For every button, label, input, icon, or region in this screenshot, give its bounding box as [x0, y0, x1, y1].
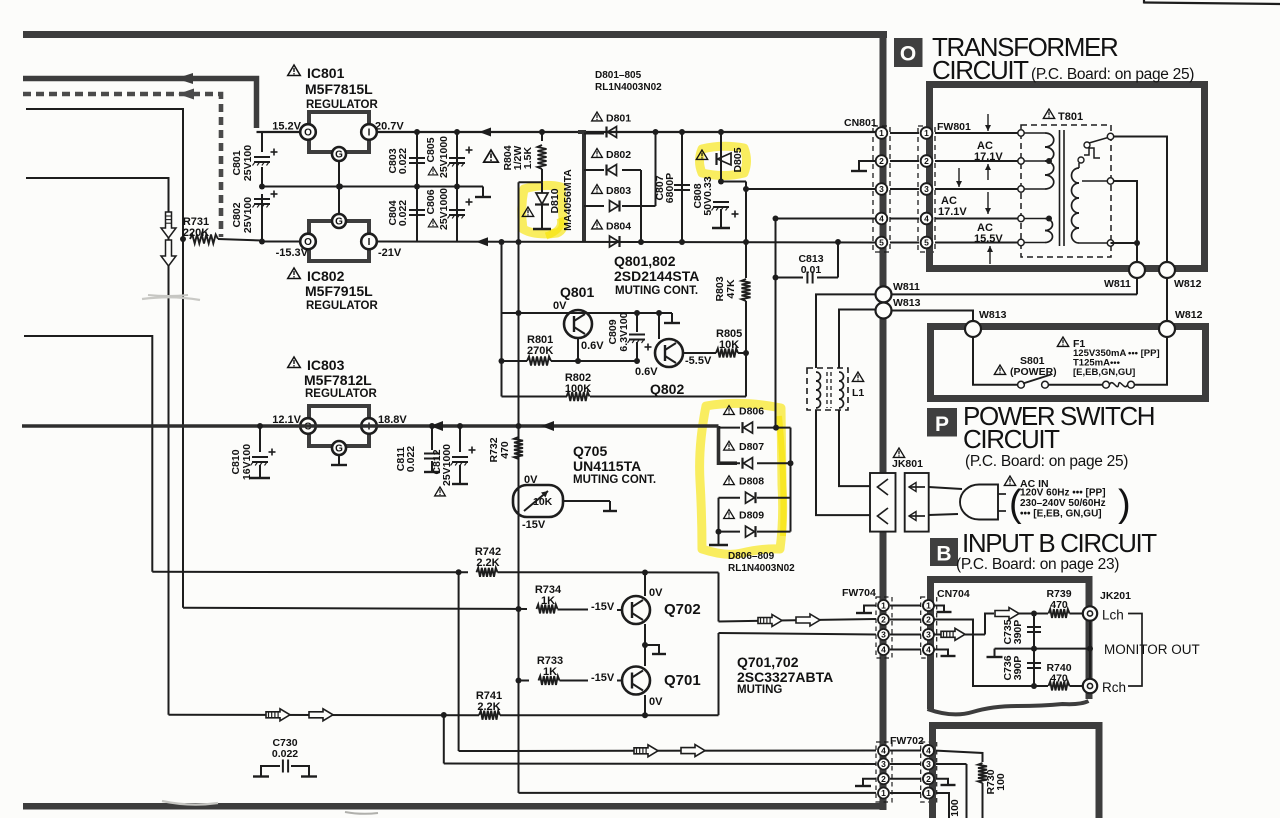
- svg-text:(POWER): (POWER): [1010, 366, 1057, 378]
- svg-text:3: 3: [926, 759, 931, 769]
- svg-text:Q701: Q701: [664, 672, 701, 689]
- svg-text:0V: 0V: [553, 300, 567, 312]
- svg-text:MA4056MTA: MA4056MTA: [562, 169, 574, 231]
- svg-text:(P.C. Board: on page 25): (P.C. Board: on page 25): [965, 453, 1128, 470]
- svg-text:Lch: Lch: [1102, 608, 1124, 623]
- svg-text:15.5V: 15.5V: [974, 233, 1003, 245]
- svg-text:2: 2: [881, 774, 886, 784]
- svg-text:3: 3: [924, 184, 929, 194]
- svg-text:D806–809: D806–809: [728, 551, 775, 562]
- svg-text:470: 470: [1050, 673, 1068, 685]
- svg-text:25V1000: 25V1000: [438, 136, 450, 178]
- svg-text:4: 4: [924, 214, 929, 224]
- svg-text:2: 2: [926, 774, 931, 784]
- svg-text:2SC3327ABTA: 2SC3327ABTA: [737, 669, 833, 685]
- svg-text:(P.C. Board: on page 25): (P.C. Board: on page 25): [1031, 66, 1194, 83]
- svg-text:470: 470: [1050, 599, 1068, 611]
- svg-text:D808: D808: [739, 476, 764, 488]
- svg-text:IC801: IC801: [307, 65, 345, 81]
- svg-text:CIRCUIT: CIRCUIT: [932, 55, 1029, 85]
- svg-text:3: 3: [879, 184, 884, 194]
- svg-text:): ): [1118, 483, 1131, 525]
- svg-text:5: 5: [879, 238, 884, 248]
- svg-text:••• [PP]: ••• [PP]: [1128, 348, 1160, 359]
- svg-text:FW704: FW704: [842, 587, 876, 599]
- svg-text:(P.C. Board: on page 23): (P.C. Board: on page 23): [956, 556, 1119, 573]
- svg-text:17.1V: 17.1V: [974, 151, 1003, 163]
- svg-text:MONITOR OUT: MONITOR OUT: [1104, 642, 1200, 657]
- svg-text:100K: 100K: [565, 383, 591, 395]
- svg-text:50V0.33: 50V0.33: [702, 176, 714, 215]
- svg-text:0.6V: 0.6V: [581, 340, 604, 352]
- svg-text:D809: D809: [739, 510, 764, 522]
- svg-text:1: 1: [926, 788, 931, 798]
- svg-text:W813: W813: [893, 297, 921, 309]
- svg-text:6.3V100: 6.3V100: [618, 312, 630, 351]
- svg-text:JK201: JK201: [1100, 590, 1131, 602]
- svg-text:2: 2: [926, 615, 931, 625]
- svg-text:25V1000: 25V1000: [438, 188, 450, 230]
- svg-text:-21V: -21V: [378, 247, 402, 259]
- svg-text:M5F7815L: M5F7815L: [305, 81, 373, 97]
- svg-text:10K: 10K: [719, 339, 739, 351]
- svg-text:100: 100: [949, 799, 961, 817]
- svg-text:REGULATOR: REGULATOR: [305, 388, 377, 400]
- svg-text:-15V: -15V: [522, 519, 546, 531]
- svg-text:2SD2144STA: 2SD2144STA: [614, 268, 699, 284]
- svg-text:3: 3: [881, 759, 886, 769]
- svg-text:JK801: JK801: [892, 458, 923, 470]
- svg-text:25V100: 25V100: [242, 197, 254, 233]
- svg-text:0.022: 0.022: [397, 200, 409, 226]
- svg-text:CIRCUIT: CIRCUIT: [963, 424, 1060, 454]
- svg-text:220K: 220K: [183, 227, 209, 239]
- svg-text:4: 4: [926, 746, 931, 756]
- svg-text:-5.5V: -5.5V: [685, 355, 712, 367]
- svg-text:D801–805: D801–805: [595, 70, 642, 81]
- svg-text:1: 1: [879, 128, 884, 138]
- svg-text:I: I: [368, 128, 371, 139]
- svg-text:3: 3: [926, 630, 931, 640]
- svg-text:1: 1: [881, 601, 886, 611]
- svg-text:120V 60Hz ••• [PP]: 120V 60Hz ••• [PP]: [1020, 488, 1106, 499]
- svg-text:P: P: [935, 413, 949, 436]
- svg-text:470: 470: [499, 441, 511, 459]
- svg-text:15.2V: 15.2V: [272, 121, 301, 133]
- svg-text:0.022: 0.022: [272, 748, 298, 760]
- svg-text:1: 1: [881, 788, 886, 798]
- svg-text:16V100: 16V100: [241, 444, 253, 480]
- svg-text:1K: 1K: [543, 666, 557, 678]
- svg-text:6800P: 6800P: [664, 173, 676, 203]
- svg-text:-15.3V: -15.3V: [276, 247, 309, 259]
- svg-text:4: 4: [881, 645, 886, 655]
- svg-text:W812: W812: [1175, 309, 1203, 321]
- svg-text:IC802: IC802: [307, 268, 345, 284]
- svg-text:M5F7915L: M5F7915L: [305, 283, 373, 299]
- svg-text:W811: W811: [1104, 278, 1131, 290]
- svg-text:1: 1: [924, 128, 929, 138]
- svg-text:-15V: -15V: [591, 672, 615, 684]
- svg-text:D810: D810: [549, 188, 561, 213]
- svg-text:2.2K: 2.2K: [477, 701, 500, 713]
- svg-text:••• [E,EB, GN,GU]: ••• [E,EB, GN,GU]: [1020, 509, 1102, 520]
- svg-text:Rch: Rch: [1102, 680, 1126, 695]
- svg-text:0V: 0V: [649, 587, 663, 599]
- svg-text:4: 4: [881, 746, 886, 756]
- svg-text:D806: D806: [739, 406, 764, 418]
- svg-text:0.022: 0.022: [397, 148, 409, 174]
- svg-text:G: G: [335, 444, 343, 455]
- svg-text:1K: 1K: [541, 595, 555, 607]
- svg-text:G: G: [335, 217, 343, 228]
- svg-text:M5F7812L: M5F7812L: [304, 372, 372, 388]
- svg-text:Q705: Q705: [573, 443, 607, 459]
- svg-text:4: 4: [926, 645, 931, 655]
- svg-text:INPUT B CIRCUIT: INPUT B CIRCUIT: [962, 528, 1157, 558]
- svg-text:D802: D802: [606, 149, 631, 161]
- svg-text:C806: C806: [425, 189, 437, 214]
- svg-text:3: 3: [881, 630, 886, 640]
- svg-text:270K: 270K: [527, 345, 553, 357]
- svg-text:MUTING: MUTING: [737, 684, 782, 696]
- svg-text:REGULATOR: REGULATOR: [306, 99, 378, 111]
- svg-text:0.01: 0.01: [801, 264, 822, 276]
- svg-text:O: O: [304, 128, 312, 139]
- svg-text:W813: W813: [979, 309, 1007, 321]
- svg-text:Q801: Q801: [560, 284, 594, 300]
- svg-text:C805: C805: [425, 137, 437, 162]
- svg-text:D807: D807: [739, 441, 764, 453]
- svg-text:L1: L1: [852, 387, 864, 399]
- svg-text:G: G: [335, 150, 343, 161]
- svg-text:4: 4: [879, 214, 884, 224]
- svg-text:100: 100: [995, 773, 1007, 791]
- svg-text:FW801: FW801: [937, 121, 971, 133]
- svg-text:Q701,702: Q701,702: [737, 654, 799, 670]
- svg-text:Q802: Q802: [650, 381, 684, 397]
- svg-text:T801: T801: [1058, 111, 1083, 123]
- svg-text:O: O: [900, 43, 916, 66]
- svg-text:FW702: FW702: [890, 735, 924, 747]
- svg-text:Q702: Q702: [664, 601, 701, 618]
- svg-text:W811: W811: [893, 281, 920, 293]
- svg-text:UN4115TA: UN4115TA: [573, 458, 641, 474]
- svg-text:Q801,802: Q801,802: [614, 253, 676, 269]
- svg-text:230–240V 50/60Hz: 230–240V 50/60Hz: [1020, 498, 1106, 509]
- svg-text:D801: D801: [606, 113, 631, 125]
- svg-text:25V1000: 25V1000: [441, 444, 453, 486]
- svg-text:1.5K: 1.5K: [522, 146, 534, 169]
- svg-text:RL1N4003N02: RL1N4003N02: [595, 82, 662, 93]
- svg-text:REGULATOR: REGULATOR: [306, 300, 378, 312]
- svg-text:RL1N4003N02: RL1N4003N02: [728, 563, 795, 574]
- svg-text:B: B: [936, 543, 951, 566]
- svg-text:10K: 10K: [533, 496, 553, 508]
- svg-text:-15V: -15V: [591, 601, 615, 613]
- svg-text:17.1V: 17.1V: [938, 206, 967, 218]
- svg-text:0V: 0V: [649, 696, 663, 708]
- svg-text:390P: 390P: [1012, 620, 1024, 645]
- svg-text:CN704: CN704: [937, 588, 970, 600]
- svg-text:5: 5: [924, 238, 929, 248]
- svg-text:2: 2: [924, 156, 929, 166]
- svg-text:2.2K: 2.2K: [476, 557, 499, 569]
- svg-text:D804: D804: [606, 221, 631, 233]
- svg-text:IC803: IC803: [307, 357, 345, 373]
- svg-text:25V100: 25V100: [242, 145, 254, 181]
- svg-text:D803: D803: [606, 185, 631, 197]
- svg-text:2: 2: [881, 615, 886, 625]
- svg-text:W812: W812: [1174, 278, 1202, 290]
- svg-text:MUTING CONT.: MUTING CONT.: [615, 285, 698, 297]
- svg-text:2: 2: [879, 156, 884, 166]
- svg-text:I: I: [368, 237, 371, 248]
- svg-text:MUTING CONT.: MUTING CONT.: [573, 474, 656, 486]
- svg-text:47K: 47K: [725, 279, 737, 299]
- svg-text:[E,EB,GN,GU]: [E,EB,GN,GU]: [1073, 367, 1135, 378]
- svg-text:0.6V: 0.6V: [635, 366, 658, 378]
- svg-text:1: 1: [926, 601, 931, 611]
- svg-text:D805: D805: [732, 147, 744, 172]
- svg-text:390P: 390P: [1012, 656, 1024, 681]
- svg-text:20.7V: 20.7V: [375, 121, 404, 133]
- svg-text:0.022: 0.022: [405, 446, 417, 472]
- svg-text:CN801: CN801: [844, 117, 877, 129]
